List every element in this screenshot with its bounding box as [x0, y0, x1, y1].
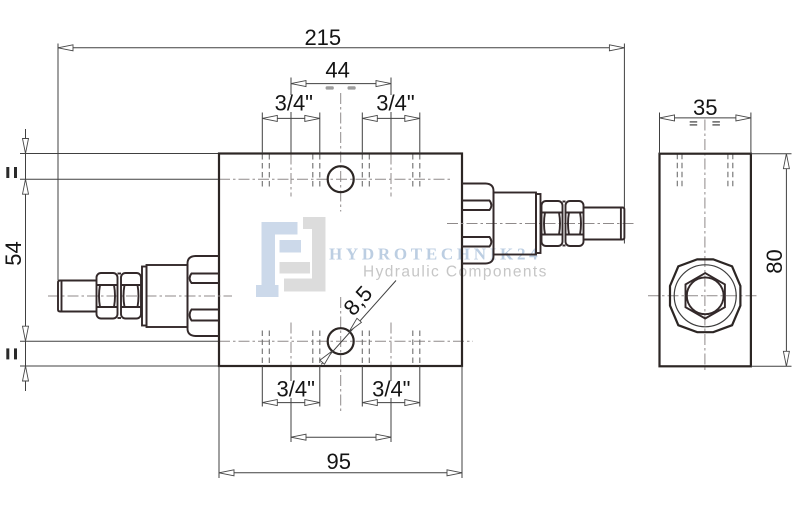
side view vertical centerline	[704, 120, 706, 373]
valve block body	[219, 154, 462, 367]
plug horizontal centerline	[648, 295, 758, 297]
svg-text:3/4": 3/4"	[275, 91, 313, 116]
equality marks below 35	[690, 121, 720, 125]
side view hidden thread lines	[677, 154, 733, 190]
watermark logo blue part	[256, 222, 301, 297]
top port threads hidden lines	[262, 154, 420, 190]
equal mark top	[6, 167, 9, 178]
equal mark bottom	[6, 348, 9, 359]
left nut 1	[97, 273, 118, 319]
flange washer right	[536, 194, 541, 253]
left fitting centerline	[48, 295, 232, 297]
side view block	[660, 154, 751, 367]
lower hole centerline	[219, 340, 473, 342]
plug inner hex socket	[686, 273, 725, 318]
port 2 centerline	[390, 78, 392, 154]
port 1 centerline	[290, 78, 292, 154]
left nut 2	[121, 273, 141, 319]
watermark logo gray part	[280, 217, 326, 292]
central vertical axis upper	[340, 93, 342, 212]
big hex nut left	[188, 256, 220, 336]
plug chamfer circle	[674, 265, 736, 327]
right fitting centerline	[447, 223, 636, 225]
right stem	[584, 208, 625, 240]
bridge	[118, 273, 122, 275]
right nut 1	[542, 201, 563, 246]
hex plug outer dodecagon	[670, 259, 740, 332]
left extension lines (block edges and hole centerlines extended left)	[20, 153, 219, 155]
cylinder body	[147, 265, 188, 327]
big hex nut right	[462, 184, 494, 264]
svg-text:3/4": 3/4"	[276, 377, 314, 402]
cylinder body right	[494, 193, 537, 255]
svg-text:3/4": 3/4"	[372, 377, 410, 402]
svg-text:35: 35	[693, 95, 717, 120]
gray equality dashes	[326, 86, 334, 89]
svg-text:215: 215	[304, 25, 341, 50]
upper mounting hole	[328, 166, 354, 192]
lower mounting hole	[328, 328, 354, 354]
svg-text:Hydraulic Components: Hydraulic Components	[363, 264, 548, 281]
upper hole centerline	[219, 178, 450, 180]
right nut 2	[566, 201, 584, 246]
bottom port threads hidden lines	[262, 331, 420, 367]
svg-text:80: 80	[762, 249, 787, 273]
svg-text:95: 95	[327, 449, 351, 474]
svg-text:3/4": 3/4"	[376, 91, 414, 116]
flange washer	[142, 267, 147, 326]
svg-text:54: 54	[1, 241, 26, 265]
plug bore circle	[687, 277, 724, 314]
bridge	[563, 201, 566, 203]
left stem	[58, 281, 97, 312]
svg-text:44: 44	[325, 57, 349, 82]
central vertical axis lower	[340, 297, 342, 412]
